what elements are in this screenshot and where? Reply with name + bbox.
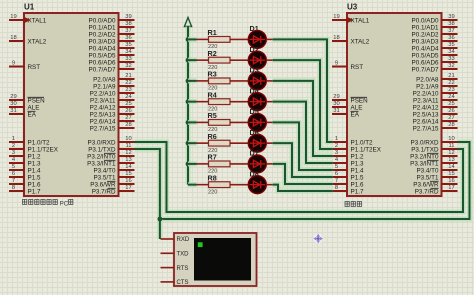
svg-text:P3.3/INT1: P3.3/INT1 [410, 161, 439, 168]
svg-text:P3.2/INT0: P3.2/INT0 [87, 154, 116, 161]
svg-text:P1.3: P1.3 [351, 161, 364, 168]
svg-text:36: 36 [448, 35, 454, 41]
svg-text:21: 21 [125, 73, 131, 79]
svg-text:15: 15 [125, 171, 131, 177]
svg-text:38: 38 [448, 21, 454, 27]
svg-text:10: 10 [125, 136, 131, 142]
svg-text:P1.7: P1.7 [28, 189, 41, 196]
svg-text:24: 24 [448, 94, 455, 100]
svg-text:P3.5/T1: P3.5/T1 [93, 175, 116, 182]
svg-text:P0.1/AD1: P0.1/AD1 [412, 25, 439, 32]
svg-text:19: 19 [10, 14, 16, 20]
svg-text:34: 34 [448, 49, 455, 55]
svg-text:RST: RST [351, 64, 364, 71]
svg-text:P0.0/AD0: P0.0/AD0 [89, 18, 116, 25]
svg-text:32: 32 [125, 63, 131, 69]
svg-text:P3.2/INT0: P3.2/INT0 [410, 154, 439, 161]
svg-text:P1.5: P1.5 [28, 175, 41, 182]
svg-text:15: 15 [448, 171, 454, 177]
svg-text:R7: R7 [208, 153, 217, 162]
svg-text:U3: U3 [347, 3, 358, 12]
svg-text:R6: R6 [208, 132, 217, 141]
svg-text:R4: R4 [208, 90, 217, 99]
svg-text:31: 31 [333, 108, 339, 114]
svg-text:P0.0/AD0: P0.0/AD0 [412, 18, 439, 25]
svg-text:30: 30 [10, 101, 16, 107]
svg-text:2: 2 [335, 143, 338, 149]
svg-text:XTAL1: XTAL1 [28, 18, 47, 25]
svg-text:P3.0/RXD: P3.0/RXD [411, 140, 439, 147]
svg-text:24: 24 [125, 94, 132, 100]
svg-text:1: 1 [335, 136, 338, 142]
svg-text:P2.7/A15: P2.7/A15 [90, 126, 116, 133]
svg-text:17: 17 [125, 185, 131, 191]
svg-text:P3.6/WR: P3.6/WR [413, 182, 439, 189]
svg-text:P0.3/AD3: P0.3/AD3 [89, 39, 116, 46]
svg-text:P1.6: P1.6 [28, 182, 41, 189]
svg-text:21: 21 [448, 73, 454, 79]
svg-text:P0.4/AD4: P0.4/AD4 [89, 46, 116, 53]
svg-text:1: 1 [12, 136, 15, 142]
svg-text:39: 39 [125, 14, 131, 20]
svg-text:P0.6/AD6: P0.6/AD6 [412, 60, 439, 67]
svg-text:25: 25 [448, 101, 454, 107]
svg-text:26: 26 [125, 108, 131, 114]
svg-text:11: 11 [448, 143, 454, 149]
svg-text:8: 8 [12, 185, 15, 191]
svg-text:P2.2/A10: P2.2/A10 [413, 91, 439, 98]
svg-text:P3.6/WR: P3.6/WR [90, 182, 116, 189]
svg-text:26: 26 [448, 108, 454, 114]
svg-text:22: 22 [448, 80, 454, 86]
svg-text:RXD: RXD [177, 237, 190, 243]
svg-text:P1.0/T2: P1.0/T2 [351, 140, 374, 147]
svg-text:6: 6 [335, 171, 338, 177]
svg-text:11: 11 [125, 143, 131, 149]
svg-text:38: 38 [125, 21, 131, 27]
svg-text:14: 14 [125, 164, 132, 170]
svg-text:P3.0/RXD: P3.0/RXD [88, 140, 116, 147]
svg-text:P1.7: P1.7 [351, 189, 364, 196]
svg-text:29: 29 [333, 94, 339, 100]
svg-text:P2.4/A12: P2.4/A12 [413, 105, 439, 112]
svg-text:17: 17 [448, 185, 454, 191]
svg-text:37: 37 [125, 28, 131, 34]
svg-text:P1.5: P1.5 [351, 175, 364, 182]
svg-text:XTAL2: XTAL2 [351, 39, 370, 46]
svg-text:37: 37 [448, 28, 454, 34]
svg-text:P0.7/AD7: P0.7/AD7 [412, 67, 439, 74]
svg-text:33: 33 [448, 56, 454, 62]
svg-text:P1.4: P1.4 [28, 168, 41, 175]
svg-text:27: 27 [448, 115, 454, 121]
svg-text:28: 28 [448, 122, 454, 128]
svg-text:6: 6 [12, 171, 15, 177]
svg-text:23: 23 [448, 87, 454, 93]
svg-text:9: 9 [12, 61, 15, 67]
svg-text:EA: EA [351, 112, 360, 119]
svg-text:P2.0/A8: P2.0/A8 [93, 77, 116, 84]
svg-text:P3.1/TXD: P3.1/TXD [88, 147, 116, 154]
svg-text:P0.2/AD2: P0.2/AD2 [412, 32, 439, 39]
svg-text:P2.6/A14: P2.6/A14 [413, 119, 439, 126]
svg-text:EA: EA [28, 112, 37, 119]
svg-text:12: 12 [448, 150, 454, 156]
svg-text:TXD: TXD [177, 252, 190, 258]
svg-text:31: 31 [10, 108, 16, 114]
svg-text:19: 19 [333, 14, 339, 20]
svg-text:R5: R5 [208, 111, 217, 120]
svg-text:35: 35 [448, 42, 454, 48]
svg-text:25: 25 [125, 101, 131, 107]
svg-text:P2.5/A13: P2.5/A13 [413, 112, 439, 119]
svg-text:9: 9 [335, 61, 338, 67]
svg-text:2: 2 [12, 143, 15, 149]
svg-text:U1: U1 [24, 3, 35, 12]
svg-text:P3.4/T0: P3.4/T0 [93, 168, 116, 175]
svg-text:P1.0/T2: P1.0/T2 [28, 140, 51, 147]
svg-text:18: 18 [333, 35, 339, 41]
svg-text:P2.0/A8: P2.0/A8 [416, 77, 439, 84]
svg-text:XTAL1: XTAL1 [351, 18, 370, 25]
svg-text:16: 16 [448, 178, 454, 184]
svg-text:P2.6/A14: P2.6/A14 [90, 119, 116, 126]
svg-text:R2: R2 [208, 49, 217, 58]
svg-text:PC: PC [60, 200, 69, 207]
svg-text:P2.1/A9: P2.1/A9 [416, 84, 439, 91]
svg-text:29: 29 [10, 94, 16, 100]
svg-text:CTS: CTS [177, 280, 189, 286]
svg-text:P1.1/T2EX: P1.1/T2EX [351, 147, 382, 154]
svg-text:R1: R1 [208, 28, 217, 37]
svg-text:P0.5/AD5: P0.5/AD5 [89, 53, 116, 60]
svg-text:P3.3/INT1: P3.3/INT1 [87, 161, 116, 168]
svg-text:P0.6/AD6: P0.6/AD6 [89, 60, 116, 67]
svg-text:P3.4/T0: P3.4/T0 [416, 168, 439, 175]
svg-text:R8: R8 [208, 173, 217, 182]
svg-text:R3: R3 [208, 70, 217, 79]
svg-text:ALE: ALE [28, 105, 40, 112]
svg-text:34: 34 [125, 49, 132, 55]
svg-text:P0.2/AD2: P0.2/AD2 [89, 32, 116, 39]
svg-text:ALE: ALE [351, 105, 363, 112]
svg-text:8: 8 [335, 185, 338, 191]
svg-text:P0.3/AD3: P0.3/AD3 [412, 39, 439, 46]
svg-text:XTAL2: XTAL2 [28, 39, 47, 46]
svg-text:3: 3 [12, 150, 15, 156]
svg-text:PSEN: PSEN [351, 98, 369, 105]
svg-text:13: 13 [448, 157, 454, 163]
svg-text:P3.5/T1: P3.5/T1 [416, 175, 439, 182]
svg-text:5: 5 [12, 164, 15, 170]
svg-text:32: 32 [448, 63, 454, 69]
svg-text:7: 7 [335, 178, 338, 184]
svg-text:28: 28 [125, 122, 131, 128]
svg-text:P1.2: P1.2 [28, 154, 41, 161]
svg-text:P1.2: P1.2 [351, 154, 364, 161]
svg-text:P2.5/A13: P2.5/A13 [90, 112, 116, 119]
svg-text:3: 3 [335, 150, 338, 156]
svg-text:P2.3/A11: P2.3/A11 [413, 98, 439, 105]
svg-text:P1.6: P1.6 [351, 182, 364, 189]
svg-text:33: 33 [125, 56, 131, 62]
svg-text:22: 22 [125, 80, 131, 86]
svg-text:P1.1/T2EX: P1.1/T2EX [28, 147, 59, 154]
svg-text:P2.2/A10: P2.2/A10 [90, 91, 116, 98]
svg-text:P0.4/AD4: P0.4/AD4 [412, 46, 439, 53]
svg-text:P3.1/TXD: P3.1/TXD [411, 147, 439, 154]
svg-text:P2.3/A11: P2.3/A11 [90, 98, 116, 105]
svg-text:30: 30 [333, 101, 339, 107]
svg-text:P2.1/A9: P2.1/A9 [93, 84, 116, 91]
svg-text:P1.4: P1.4 [351, 168, 364, 175]
svg-text:35: 35 [125, 42, 131, 48]
svg-text:16: 16 [125, 178, 131, 184]
svg-text:5: 5 [335, 164, 338, 170]
svg-text:220: 220 [208, 189, 217, 195]
svg-text:10: 10 [448, 136, 454, 142]
svg-text:39: 39 [448, 14, 454, 20]
svg-text:23: 23 [125, 87, 131, 93]
svg-text:36: 36 [125, 35, 131, 41]
svg-text:RST: RST [28, 64, 41, 71]
svg-text:P0.1/AD1: P0.1/AD1 [89, 25, 116, 32]
svg-text:RTS: RTS [177, 266, 189, 272]
svg-text:7: 7 [12, 178, 15, 184]
svg-text:P2.4/A12: P2.4/A12 [90, 105, 116, 112]
svg-text:27: 27 [125, 115, 131, 121]
svg-text:P1.3: P1.3 [28, 161, 41, 168]
svg-text:18: 18 [10, 35, 16, 41]
svg-text:P0.5/AD5: P0.5/AD5 [412, 53, 439, 60]
svg-text:P3.7/RD: P3.7/RD [92, 189, 116, 196]
svg-text:14: 14 [448, 164, 455, 170]
svg-text:13: 13 [125, 157, 131, 163]
svg-text:PSEN: PSEN [28, 98, 46, 105]
svg-text:P2.7/A15: P2.7/A15 [413, 126, 439, 133]
svg-text:P0.7/AD7: P0.7/AD7 [89, 67, 116, 74]
svg-text:P3.7/RD: P3.7/RD [415, 189, 439, 196]
svg-text:12: 12 [125, 150, 131, 156]
